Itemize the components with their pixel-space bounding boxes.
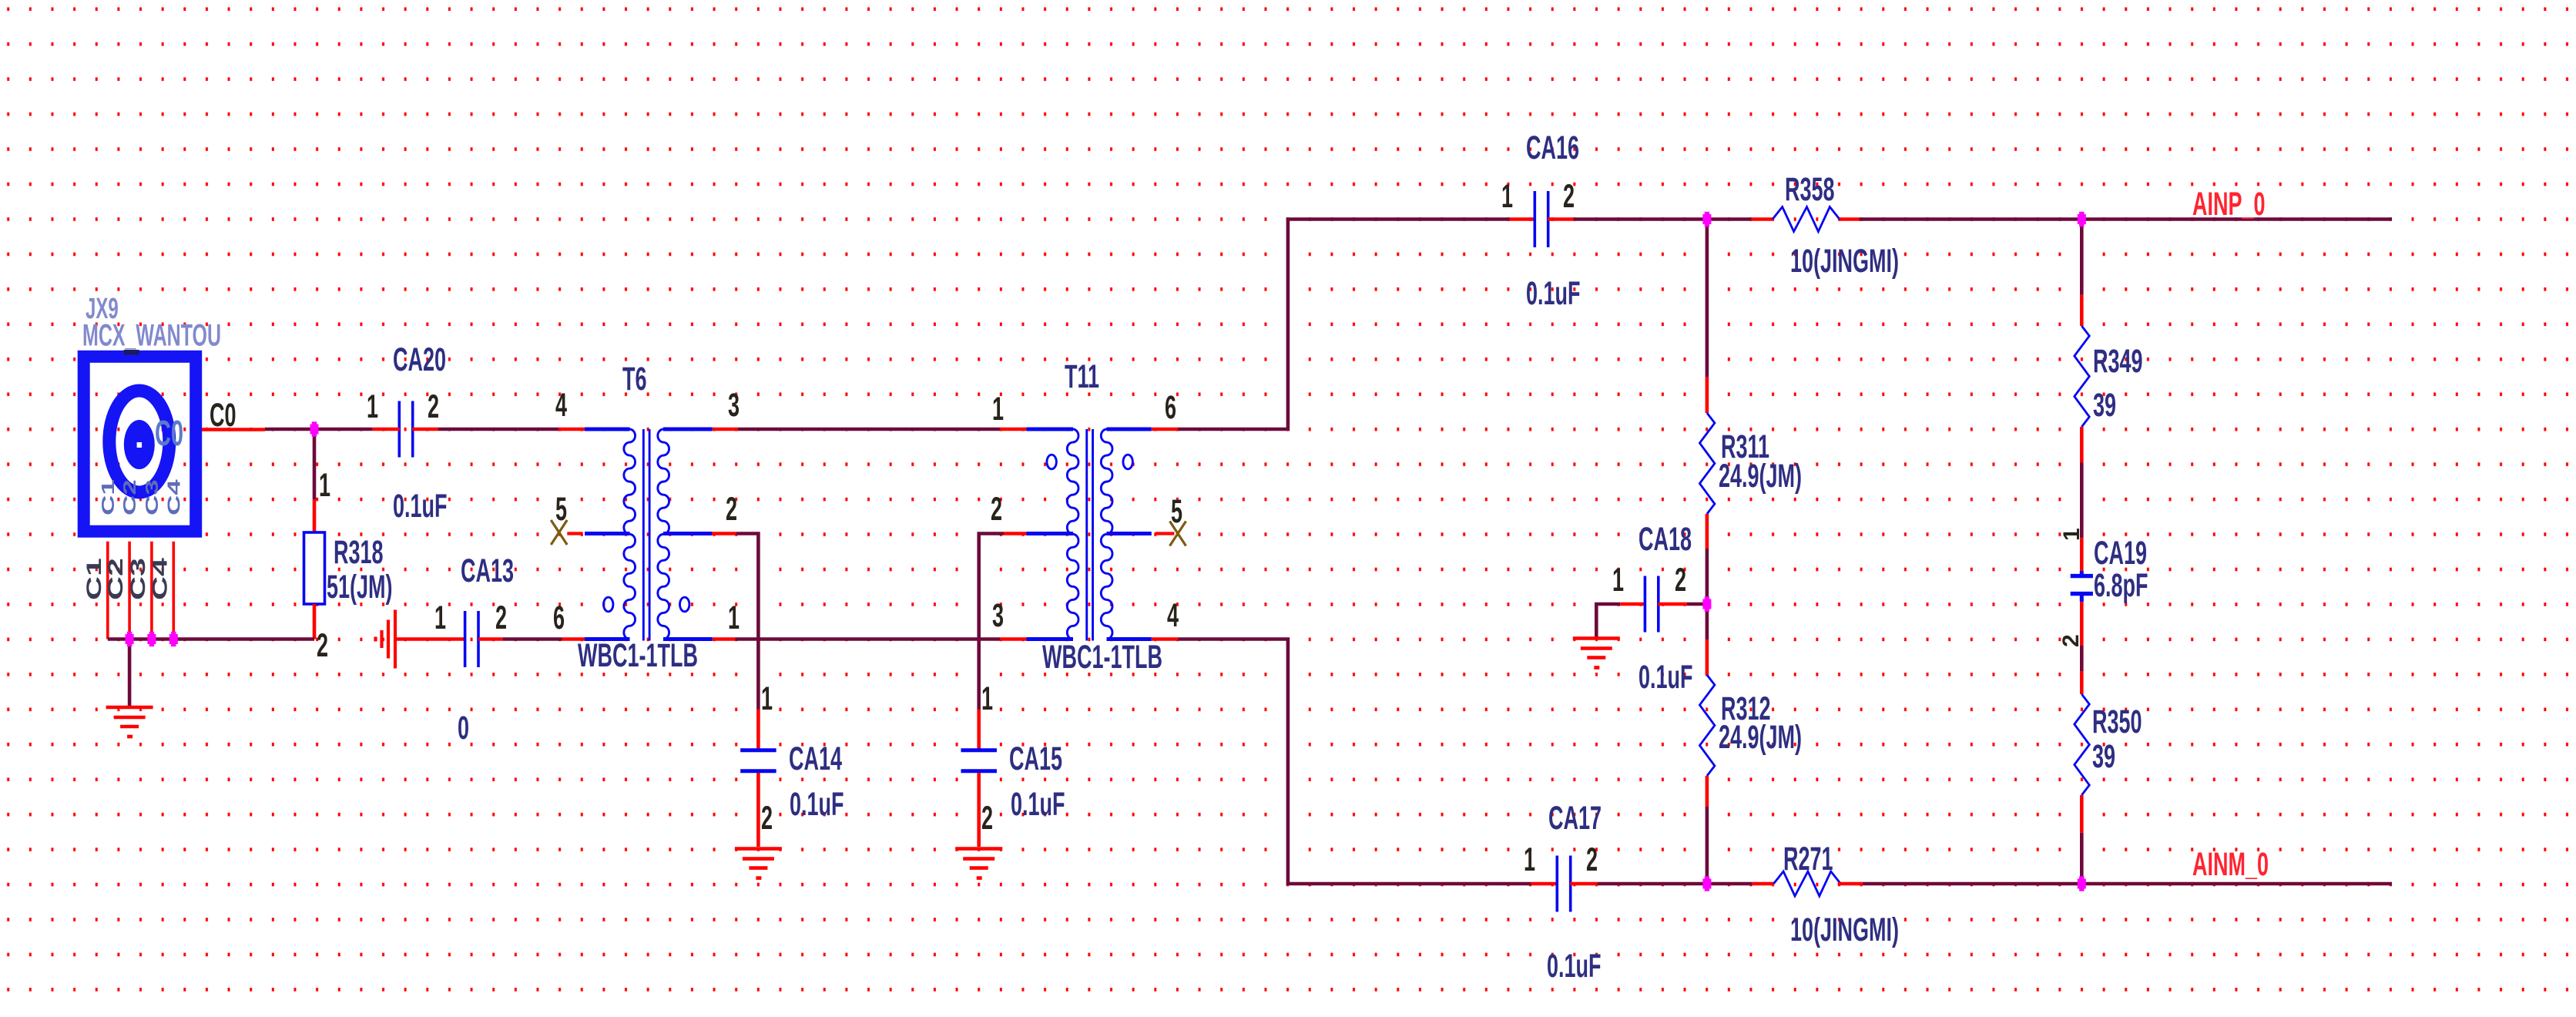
svg-text:5: 5 bbox=[555, 490, 567, 527]
svg-text:6: 6 bbox=[553, 599, 565, 636]
svg-text:1: 1 bbox=[728, 599, 740, 636]
svg-text:1: 1 bbox=[1612, 561, 1624, 598]
ground (rotated) at CA13 bbox=[376, 610, 396, 669]
svg-text:R350: R350 bbox=[2092, 703, 2142, 740]
svg-text:0.1uF: 0.1uF bbox=[1526, 274, 1581, 311]
svg-text:C4: C4 bbox=[164, 479, 184, 515]
resistor R312 bbox=[1699, 675, 1715, 776]
svg-text:CA18: CA18 bbox=[1639, 520, 1692, 557]
T11 pin4 stub bbox=[1152, 637, 1179, 641]
capacitor CA13 bbox=[465, 611, 478, 667]
svg-text:1: 1 bbox=[319, 466, 330, 503]
T6 pin1 stub bbox=[713, 637, 736, 641]
ground CA15 bbox=[955, 849, 1002, 878]
T6 pin5 no-connect bbox=[567, 532, 582, 535]
svg-text:0.1uF: 0.1uF bbox=[790, 785, 844, 822]
svg-text:39: 39 bbox=[2092, 737, 2115, 774]
capacitor CA15 bbox=[961, 750, 997, 771]
svg-text:CA13: CA13 bbox=[461, 552, 514, 589]
svg-text:2: 2 bbox=[1586, 841, 1598, 878]
svg-text:C3: C3 bbox=[143, 479, 163, 515]
svg-text:0.1uF: 0.1uF bbox=[393, 487, 448, 524]
svg-text:C1: C1 bbox=[98, 479, 118, 515]
capacitor CA18 bbox=[1596, 604, 1620, 639]
svg-text:3: 3 bbox=[992, 596, 1004, 633]
wire bus to ground bbox=[128, 639, 132, 708]
svg-text:1: 1 bbox=[1524, 841, 1535, 878]
resistor R311 bbox=[1699, 413, 1715, 514]
svg-text:6: 6 bbox=[1165, 388, 1176, 425]
svg-text:CA15: CA15 bbox=[1009, 740, 1062, 777]
svg-text:CA20: CA20 bbox=[393, 341, 446, 378]
svg-text:1: 1 bbox=[367, 388, 378, 425]
T6 pin3 stub bbox=[713, 428, 738, 431]
svg-text:51(JM): 51(JM) bbox=[327, 568, 393, 605]
svg-text:2: 2 bbox=[317, 626, 328, 663]
svg-text:C0: C0 bbox=[155, 414, 183, 453]
junction dot R312 bottom bbox=[1753, 882, 1774, 886]
ground JX9 bbox=[106, 707, 153, 737]
wire top rail down to R349 bbox=[2080, 220, 2084, 295]
svg-text:1: 1 bbox=[992, 390, 1004, 427]
svg-text:2: 2 bbox=[495, 599, 507, 636]
wire CA17 to R271 via junction bbox=[1598, 882, 1753, 886]
svg-text:24.9(JM): 24.9(JM) bbox=[1719, 457, 1802, 494]
svg-text:C3: C3 bbox=[126, 558, 149, 600]
svg-text:6.8pF: 6.8pF bbox=[2094, 566, 2148, 603]
svg-text:1: 1 bbox=[981, 680, 993, 717]
wire CA16 to R358 via junction bbox=[1574, 217, 1752, 221]
capacitor CA16 bbox=[1535, 191, 1548, 247]
wire C0 stub from JX9 bbox=[202, 428, 265, 431]
svg-text:T6: T6 bbox=[622, 360, 647, 397]
svg-text:R358: R358 bbox=[1785, 170, 1835, 207]
svg-text:0.1uF: 0.1uF bbox=[1547, 947, 1602, 984]
svg-text:2: 2 bbox=[1563, 177, 1575, 214]
svg-text:C4: C4 bbox=[148, 558, 171, 600]
resistor R271 bbox=[1773, 871, 1840, 896]
wire CA13 to T6 pin6 bbox=[503, 637, 562, 641]
resistor R350 bbox=[2075, 694, 2090, 795]
wire CA18 junction to R312 bbox=[1706, 604, 1709, 639]
svg-text:R271: R271 bbox=[1783, 840, 1833, 877]
svg-text:CA14: CA14 bbox=[789, 740, 842, 777]
svg-text:CA17: CA17 bbox=[1548, 799, 1602, 836]
T6 pin2 stub bbox=[712, 532, 736, 535]
svg-text:C0: C0 bbox=[210, 396, 236, 433]
svg-text:0: 0 bbox=[458, 709, 469, 746]
wire C0 to junction and CA20 bbox=[265, 428, 373, 431]
svg-text:C2: C2 bbox=[104, 558, 127, 600]
svg-text:CA16: CA16 bbox=[1526, 129, 1579, 166]
wire top rail down to R311 bbox=[1706, 220, 1709, 378]
T11 pin6 stub bbox=[1152, 428, 1179, 431]
svg-text:0.1uF: 0.1uF bbox=[1011, 785, 1065, 822]
svg-text:2: 2 bbox=[981, 799, 993, 836]
svg-text:C1: C1 bbox=[82, 558, 106, 600]
svg-text:1: 1 bbox=[434, 599, 446, 636]
svg-text:39: 39 bbox=[2093, 386, 2116, 423]
wire R311 to CA18 junction bbox=[1706, 549, 1709, 604]
svg-text:24.9(JM): 24.9(JM) bbox=[1719, 718, 1802, 755]
svg-text:R349: R349 bbox=[2093, 342, 2143, 379]
wire R271 to AINM_0 bbox=[1863, 882, 2392, 886]
svg-text:AINP_0: AINP_0 bbox=[2192, 185, 2266, 222]
svg-text:1: 1 bbox=[1501, 177, 1513, 214]
capacitor CA19 bbox=[2071, 571, 2093, 602]
wire T11 pin6 up to top rail bbox=[1178, 220, 1509, 430]
svg-text:WBC1-1TLB: WBC1-1TLB bbox=[1042, 638, 1162, 675]
resistor R318 body bbox=[304, 532, 325, 604]
svg-text:2: 2 bbox=[726, 490, 737, 527]
svg-text:AINM_0: AINM_0 bbox=[2192, 845, 2269, 882]
resistor R358 bbox=[1773, 207, 1840, 232]
svg-text:0.1uF: 0.1uF bbox=[1639, 658, 1693, 695]
svg-text:2: 2 bbox=[1675, 561, 1686, 598]
capacitor CA20 bbox=[399, 401, 412, 458]
wire R349 to CA19 bbox=[2080, 463, 2084, 539]
svg-text:3: 3 bbox=[728, 386, 740, 423]
svg-text:4: 4 bbox=[1167, 596, 1179, 633]
svg-text:2: 2 bbox=[428, 388, 439, 425]
svg-text:C2: C2 bbox=[120, 479, 140, 515]
svg-text:10(JINGMI): 10(JINGMI) bbox=[1790, 911, 1899, 948]
svg-text:2: 2 bbox=[761, 799, 773, 836]
svg-text:MCX_WANTOU: MCX_WANTOU bbox=[82, 319, 221, 353]
svg-text:1: 1 bbox=[761, 680, 773, 717]
svg-text:T11: T11 bbox=[1065, 357, 1099, 394]
wire R318 pin2 to bus bbox=[313, 604, 317, 639]
svg-text:WBC1-1TLB: WBC1-1TLB bbox=[578, 636, 698, 673]
T11 pin5 no-connect bbox=[1156, 532, 1175, 535]
ground CA18 bbox=[1573, 639, 1620, 668]
svg-text:2: 2 bbox=[991, 490, 1002, 527]
node bus JX9 pins bbox=[108, 637, 314, 641]
wire ground to CA13 bbox=[395, 637, 465, 641]
wire T6 pin2 down to CA14 bbox=[736, 534, 759, 710]
svg-text:10(JINGMI): 10(JINGMI) bbox=[1790, 242, 1899, 279]
svg-text:4: 4 bbox=[555, 386, 567, 423]
ground CA14 bbox=[735, 849, 782, 878]
capacitor CA17 bbox=[1557, 856, 1570, 912]
junction dots overlay bbox=[126, 632, 134, 646]
wire T11 pin2 down to CA15 bbox=[979, 534, 1004, 710]
wire CA19 to R350 bbox=[2080, 602, 2084, 646]
resistor R349 bbox=[2075, 326, 2090, 427]
wire CA20 to T6 pin4 bbox=[438, 428, 558, 431]
svg-text:5: 5 bbox=[1171, 492, 1182, 529]
wire T6 pin3 to T11 pin1 bbox=[738, 428, 1000, 431]
capacitor CA14 bbox=[740, 750, 776, 771]
svg-text:1: 1 bbox=[2059, 528, 2085, 541]
junction dot R311 top bbox=[1751, 217, 1773, 221]
wire junction to R318 bbox=[313, 429, 317, 500]
svg-text:R318: R318 bbox=[334, 533, 384, 570]
wire T11 pin4 down to bottom rail bbox=[1178, 639, 1531, 884]
transformer T6 bbox=[585, 429, 713, 639]
connector JX9 MCX_WANTOU bbox=[84, 357, 196, 532]
svg-text:CA19: CA19 bbox=[2094, 534, 2147, 571]
wire R358 to AINP_0 bbox=[1860, 217, 2393, 221]
transformer T11 bbox=[1027, 429, 1152, 639]
wire T6 pin1 to T11 pin3 bbox=[735, 637, 1000, 641]
JX9 pin stubs C1-C4 bbox=[108, 542, 174, 639]
